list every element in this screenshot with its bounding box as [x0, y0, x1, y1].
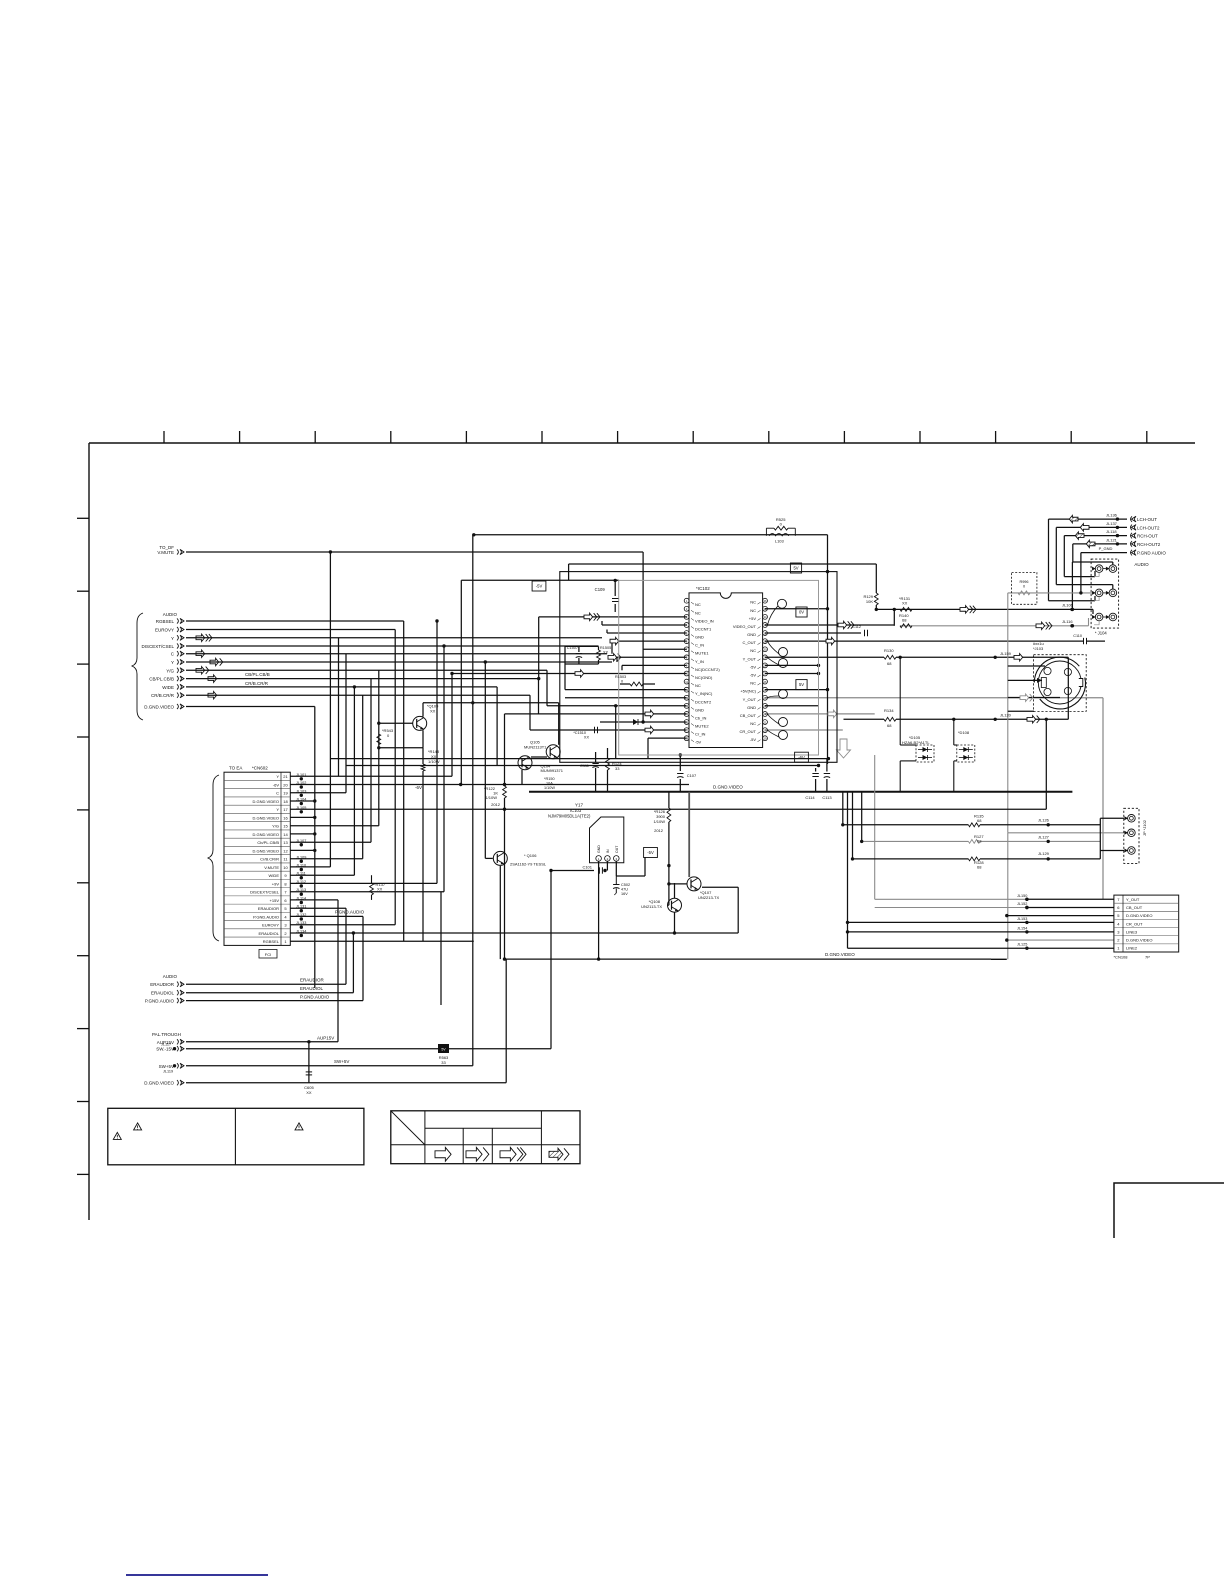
svg-text:Y/G: Y/G	[166, 668, 174, 673]
wire V.MUTE vert mid	[642, 552, 644, 722]
arrow CR single	[208, 691, 217, 698]
wire Y/G step	[546, 670, 548, 706]
svg-text:JL102: JL102	[296, 781, 306, 785]
label D.GND.VIDEO main	[713, 785, 743, 790]
svg-text:NJM79M05DL1A(TE2): NJM79M05DL1A(TE2)	[548, 814, 591, 819]
resistor R131	[899, 596, 912, 611]
arrow down grey	[837, 739, 851, 758]
wire Y_OUT	[765, 656, 884, 658]
svg-text:R130: R130	[884, 648, 894, 653]
svg-text:JL101: JL101	[296, 773, 306, 777]
wire IC103 pin1 drop	[598, 861, 600, 959]
wire Q106 col down	[499, 866, 501, 959]
net label -5V bot	[795, 752, 809, 762]
legend arrow triple	[500, 1147, 526, 1161]
svg-text:HZA6-B2*A1TL: HZA6-B2*A1TL	[902, 740, 930, 745]
svg-text:Cb/PL.CB/B: Cb/PL.CB/B	[257, 840, 279, 845]
label TO EA	[229, 766, 242, 771]
capacitor C114	[805, 774, 818, 801]
arrow JL120 double	[1027, 716, 1040, 723]
svg-text:16: 16	[283, 815, 288, 820]
node AUP15V input	[157, 1039, 184, 1045]
connector J103 S-video	[1034, 655, 1087, 712]
svg-text:RGBSEL: RGBSEL	[156, 619, 175, 624]
wire IC103 in	[551, 870, 594, 872]
svg-text:V.MUTE: V.MUTE	[264, 865, 279, 870]
svg-text:2SA1162-Y9 TESSL: 2SA1162-Y9 TESSL	[510, 862, 547, 867]
junction dots	[307, 517, 1082, 1043]
wire RGBSEL drop2	[403, 621, 405, 941]
wire C109 stub	[614, 580, 616, 596]
wire pin18 jog	[647, 738, 649, 759]
svg-text:19: 19	[283, 791, 288, 796]
wire ERAUDIOR in	[186, 983, 346, 985]
jumper JL119	[163, 1064, 176, 1073]
arrow CB single	[208, 675, 217, 682]
wire pin7 feed	[643, 648, 687, 650]
net label -5V left	[532, 581, 546, 591]
wire P.GND	[1081, 552, 1127, 554]
svg-text:XX: XX	[430, 709, 436, 714]
wire Q105 coll riser	[558, 703, 560, 745]
node Y/G input	[166, 668, 184, 674]
wire r11	[290, 858, 362, 860]
svg-text:NC(GND): NC(GND)	[695, 675, 713, 680]
svg-text:+9V: +9V	[272, 881, 280, 886]
wire R126 col2	[668, 822, 670, 905]
svg-text:GND: GND	[747, 632, 756, 637]
arrow VIDEO_IN triple	[584, 613, 600, 620]
arrow audio LCH hatched	[1069, 515, 1078, 522]
svg-text:ERAUDIOR: ERAUDIOR	[150, 982, 175, 987]
resistor R129	[863, 593, 878, 605]
net label R563 5V	[438, 1044, 449, 1053]
svg-text:CR/B.CR/R: CR/B.CR/R	[245, 681, 269, 686]
wire ERAUDIOL in	[186, 992, 353, 994]
connector J104 RCA block	[1091, 559, 1119, 628]
arrow audio RCH2 hatched	[1086, 540, 1095, 547]
capacitor C112	[852, 625, 867, 636]
wire SW+5V riser	[472, 535, 474, 1066]
svg-text:-5V: -5V	[750, 737, 757, 742]
svg-text:*C1510: *C1510	[573, 731, 586, 735]
jumper JL106	[1062, 603, 1074, 612]
wire JL159 to J103	[995, 656, 1068, 658]
wire CB in	[186, 678, 539, 680]
resistor R124	[606, 758, 623, 771]
label CN602	[252, 766, 268, 771]
wire Q108 base	[667, 904, 669, 906]
svg-text:JL159: JL159	[1000, 651, 1012, 656]
arrow C_OUT single	[826, 637, 835, 644]
svg-text:JL109: JL109	[296, 855, 306, 859]
node EUROVY input	[155, 627, 184, 633]
wire Q108 up	[674, 883, 676, 898]
wire bus932	[290, 932, 738, 934]
capacitor C605	[304, 1072, 314, 1095]
svg-text:L103: L103	[775, 539, 785, 544]
wire outerbox feed	[1072, 561, 1112, 563]
capacitor C502	[613, 876, 630, 896]
wire outerbox drop	[1071, 562, 1073, 609]
svg-text:17: 17	[283, 807, 288, 812]
resistor R130	[884, 648, 896, 666]
wire PGND vert grey	[1007, 593, 1009, 833]
svg-text:MUTE2: MUTE2	[695, 724, 709, 729]
label AUDIO out	[1134, 562, 1149, 567]
svg-text:SW+5V: SW+5V	[159, 1064, 174, 1069]
node SW+5V input	[159, 1063, 184, 1069]
svg-text:D.GND.VIDEO: D.GND.VIDEO	[713, 785, 743, 790]
svg-text:+15V: +15V	[270, 898, 280, 903]
svg-text:ERAUDIOL: ERAUDIOL	[259, 931, 280, 936]
capacitor C111	[580, 763, 599, 768]
svg-text:D.GND.VIDEO: D.GND.VIDEO	[825, 952, 855, 957]
svg-text:JL152: JL152	[1017, 902, 1027, 906]
wire C111 col	[595, 752, 597, 762]
box grey around IC	[619, 580, 819, 755]
node D.GND.VIDEO input	[144, 704, 184, 710]
label P.GND.AUDIO mid	[335, 910, 365, 915]
svg-text:D.GND.VIDEO: D.GND.VIDEO	[1126, 913, 1152, 918]
svg-text:OUT: OUT	[615, 845, 619, 853]
svg-text:Cr/B.CR/R: Cr/B.CR/R	[260, 857, 279, 862]
resistor R543	[377, 728, 394, 745]
transistor Q106	[493, 851, 547, 866]
wire r6	[290, 899, 338, 901]
svg-text:Y: Y	[171, 636, 174, 641]
wire r18 gnd	[290, 800, 315, 802]
svg-text:D.GND.VIDEO: D.GND.VIDEO	[1126, 938, 1152, 943]
label SW+5V wire	[334, 1059, 349, 1064]
wire r8 up	[436, 621, 438, 883]
svg-text:-6V: -6V	[273, 782, 280, 787]
node LCH-OUT output	[1106, 513, 1157, 523]
svg-text:-5V: -5V	[695, 740, 702, 745]
svg-text:RCH-OUT: RCH-OUT	[1137, 534, 1158, 539]
svg-text:C111: C111	[580, 763, 590, 768]
svg-text:CR/B.CR/R: CR/B.CR/R	[151, 693, 175, 698]
wire L103 net	[474, 534, 828, 536]
svg-text:68: 68	[977, 818, 982, 823]
wire 5V top	[569, 563, 877, 565]
wire pin9 jog	[621, 665, 623, 670]
svg-text:C1507: C1507	[567, 646, 578, 650]
svg-text:*R150: *R150	[544, 777, 555, 781]
wire pin4 feed	[602, 624, 687, 626]
svg-text:P.GND.AUDIO: P.GND.AUDIO	[300, 995, 330, 1000]
wire AUP15V cap drop	[308, 1042, 310, 1083]
svg-text:C_IN: C_IN	[695, 643, 704, 648]
svg-text:JL117: JL117	[161, 1043, 171, 1047]
svg-text:C502: C502	[621, 883, 630, 887]
svg-text:GND: GND	[695, 635, 704, 640]
wire jack2r feed	[1056, 584, 1113, 586]
svg-text:-5V: -5V	[750, 673, 757, 678]
svg-text:JL154: JL154	[1017, 926, 1027, 930]
svg-text:CB_OUT: CB_OUT	[740, 713, 757, 718]
svg-text:JL105: JL105	[296, 806, 306, 810]
wire pin14 feed	[547, 705, 687, 707]
svg-text:68: 68	[977, 865, 982, 870]
capacitor C1510	[573, 727, 597, 740]
svg-text:NC: NC	[695, 602, 701, 607]
wire SW+5V	[186, 1065, 473, 1067]
svg-text:FCI: FCI	[265, 952, 271, 957]
warning triangle 3	[295, 1123, 303, 1130]
svg-text:Y_IN: Y_IN	[695, 659, 704, 664]
wire row4 feed	[848, 921, 1114, 923]
svg-text:Y_OUT: Y_OUT	[1126, 897, 1140, 902]
wire v460	[460, 580, 462, 784]
wire bus941	[290, 940, 474, 942]
svg-text:NC: NC	[750, 681, 756, 686]
wire col441 ext	[440, 892, 442, 1005]
svg-text:GND: GND	[695, 707, 704, 712]
svg-text:AUDIO: AUDIO	[163, 974, 178, 979]
wire V.MUTE	[186, 551, 643, 553]
svg-text:CR_OUT: CR_OUT	[1126, 921, 1143, 926]
wire C1507 stub2	[578, 658, 580, 664]
wire r21	[290, 775, 452, 777]
svg-text:10K: 10K	[866, 599, 873, 604]
wire pin12 feed	[565, 689, 687, 691]
resistor R1505	[597, 646, 612, 660]
node Y input	[171, 659, 184, 665]
wire jackcol bracket	[1099, 818, 1101, 859]
wire L103 drop	[827, 535, 829, 764]
svg-text:R134: R134	[884, 708, 894, 713]
wire row3 feed	[848, 931, 1114, 933]
svg-text:JL106: JL106	[1062, 603, 1074, 608]
node CB/PL.CB/B input	[149, 676, 184, 682]
svg-text:LINE3: LINE3	[1126, 929, 1138, 934]
connector CN602 table	[224, 772, 290, 945]
wire Q109 coll up	[422, 703, 424, 717]
wire row2 feed grey	[1007, 939, 1114, 941]
wire CN108 bottom	[991, 958, 1007, 960]
wire R134 net	[844, 718, 885, 720]
wire C114 stub	[815, 768, 817, 772]
svg-text:13: 13	[283, 840, 288, 845]
arrow Y_IN double	[608, 654, 621, 661]
node RCH-OUT2 output	[1106, 537, 1161, 547]
diode D108	[957, 730, 975, 762]
arrow Cb_IN single	[645, 710, 654, 717]
wire JL106 net	[876, 608, 1093, 610]
wire Q107 top	[688, 792, 690, 877]
svg-text:RGBSEL: RGBSEL	[263, 939, 280, 944]
wire Q107 riser	[737, 887, 739, 933]
svg-text:IN: IN	[606, 849, 610, 853]
resistor R135	[968, 814, 984, 827]
svg-text:TO EA: TO EA	[229, 766, 242, 771]
svg-text:D.GND.VIDEO: D.GND.VIDEO	[253, 799, 279, 804]
wire 565 col	[564, 646, 566, 689]
wire JL116 raise	[1088, 618, 1090, 626]
svg-text:1/10W: 1/10W	[428, 759, 440, 764]
label J103	[1033, 641, 1044, 651]
wire Y/G in	[186, 669, 547, 671]
wire r5	[290, 907, 346, 909]
arrow Y/G double	[196, 667, 209, 674]
svg-text:68: 68	[977, 839, 982, 844]
wire C114 stub2	[815, 779, 817, 792]
wire IC103 out	[615, 861, 617, 876]
svg-text:ERAUDIOR: ERAUDIOR	[300, 978, 325, 983]
svg-text:C112: C112	[852, 625, 861, 629]
signal-arrow legend table	[391, 1111, 580, 1164]
svg-text:Y: Y	[276, 807, 279, 812]
wire R1505 stub2	[598, 660, 600, 664]
wire CB drop	[370, 679, 372, 843]
transistor Q107	[687, 877, 719, 900]
wire r17 Y17	[290, 808, 1046, 810]
svg-text:Y: Y	[276, 774, 279, 779]
wire DISCEXT/CSEL	[186, 645, 599, 647]
svg-text:0: 0	[1023, 585, 1025, 589]
wire D.GND drop	[314, 707, 316, 989]
wire r4	[290, 915, 363, 917]
svg-text:33: 33	[615, 766, 620, 771]
IC U102 body and pins	[684, 593, 767, 748]
svg-text:NC(DCCNT2): NC(DCCNT2)	[695, 667, 720, 672]
svg-text:NC: NC	[695, 610, 701, 615]
wire AUP15V	[186, 1041, 338, 1043]
svg-text:R1505: R1505	[600, 646, 611, 650]
svg-text:NC: NC	[750, 648, 756, 653]
arrow CB_OUT grey single	[828, 710, 837, 717]
resistor R127	[968, 834, 984, 844]
wire jack1 feed	[1064, 576, 1095, 578]
wire R135 net b	[980, 824, 1100, 826]
transistor Q108	[641, 898, 681, 912]
blue footer line	[126, 1574, 268, 1576]
svg-text:JL114: JL114	[296, 896, 306, 900]
wire PGND net grey	[1008, 592, 1095, 594]
wire RCH drop	[1063, 536, 1065, 577]
wire r3	[290, 924, 395, 926]
label IC102	[696, 586, 710, 591]
diode D105	[902, 735, 934, 762]
wire r6 down	[337, 900, 339, 1042]
wire R129 col2	[875, 605, 877, 609]
node CR/B.CR/R input	[151, 693, 184, 699]
jumper JL127	[1038, 835, 1050, 844]
wire R128 net	[853, 858, 969, 860]
svg-text:5V: 5V	[793, 566, 798, 571]
wire row6 tail grey	[875, 907, 1027, 909]
svg-text:+5V: +5V	[749, 616, 757, 621]
svg-text:18: 18	[283, 799, 288, 804]
svg-text:MUTE1: MUTE1	[695, 651, 709, 656]
jumper JL117	[161, 1043, 176, 1051]
page corner mark bottom-right	[1114, 1183, 1224, 1238]
label CN108	[1114, 955, 1151, 960]
node RCH-OUT output	[1106, 529, 1158, 539]
svg-text:WIDE: WIDE	[269, 873, 280, 878]
svg-text:P.GND AUDIO: P.GND AUDIO	[1137, 551, 1166, 556]
svg-text:C107: C107	[687, 773, 697, 778]
svg-text:-6V: -6V	[415, 785, 422, 790]
wire R129 col	[875, 564, 877, 593]
connector J102 block	[1124, 808, 1139, 863]
svg-text:P_GND: P_GND	[1099, 546, 1113, 551]
wire r15	[290, 825, 379, 827]
wire svid stub3	[1008, 697, 1060, 699]
capacitor C110	[1073, 634, 1086, 644]
arrow Y triple	[196, 634, 212, 641]
node LCH-OUT2 output	[1106, 521, 1160, 531]
wire C in	[186, 653, 607, 655]
wire DGND label net	[505, 958, 992, 960]
label CB/PL.CB/B wire	[245, 672, 270, 677]
node WIDE input	[162, 684, 184, 690]
svg-text:JL116: JL116	[1062, 619, 1073, 624]
svg-text:JL104: JL104	[296, 798, 306, 802]
wire Y17 vert	[504, 714, 506, 785]
wire Q108 down	[674, 912, 676, 933]
wire pin5 jog	[606, 630, 608, 634]
svg-text:NC: NC	[750, 721, 756, 726]
svg-text:PAL.TROUGH: PAL.TROUGH	[152, 1032, 181, 1037]
wire R134 net b	[896, 718, 995, 720]
wire WIDE step	[496, 687, 498, 766]
wire grey row7	[875, 898, 1027, 900]
svg-text:ERAUDIOL: ERAUDIOL	[300, 986, 324, 991]
svg-text:Y_OUT: Y_OUT	[743, 697, 757, 702]
border tick marks top	[164, 431, 1147, 443]
wire R124 col2	[607, 770, 609, 792]
svg-text:XX: XX	[306, 1090, 312, 1095]
svg-text:D.GND.VIDEO: D.GND.VIDEO	[253, 848, 279, 853]
jumper JL120	[1000, 713, 1012, 718]
wire Y17 riser	[1045, 719, 1047, 809]
svg-text:1/10W: 1/10W	[485, 795, 497, 800]
wire gnd stub	[615, 706, 617, 759]
resistor R563	[439, 1055, 449, 1065]
wire r10	[290, 866, 330, 868]
svg-text:C101: C101	[582, 865, 592, 870]
svg-text:5V: 5V	[441, 1048, 446, 1052]
wire C107 drop2	[679, 779, 681, 792]
wire box580 ext	[461, 579, 618, 581]
svg-text:C: C	[276, 791, 279, 796]
wire v852	[852, 792, 854, 859]
svg-text:JL120: JL120	[1000, 713, 1012, 718]
wire RGBSEL	[186, 620, 404, 622]
wire ERAUDIOL riser	[352, 933, 354, 993]
capacitor C109	[595, 587, 619, 602]
svg-text:NC: NC	[750, 600, 756, 605]
wire grey down2	[1007, 833, 1009, 960]
wire jack1r stub	[1112, 562, 1114, 565]
wire CR in	[186, 694, 530, 696]
resistor R1503	[615, 675, 643, 686]
wire r8	[290, 882, 437, 884]
svg-text:XX: XX	[377, 887, 383, 892]
wire r7	[290, 891, 444, 893]
wire pin8 feed	[617, 656, 687, 658]
svg-text:*D108: *D108	[958, 730, 970, 735]
wire SW-15V riser	[550, 871, 552, 1049]
wire pin3 col	[538, 617, 540, 679]
wire R126 col	[668, 792, 670, 808]
svg-text:D.GND.VIDEO: D.GND.VIDEO	[144, 1081, 174, 1086]
wire C113 stub2	[826, 779, 828, 792]
svg-text:R996: R996	[1019, 580, 1028, 584]
svg-text:Y17: Y17	[575, 803, 584, 808]
